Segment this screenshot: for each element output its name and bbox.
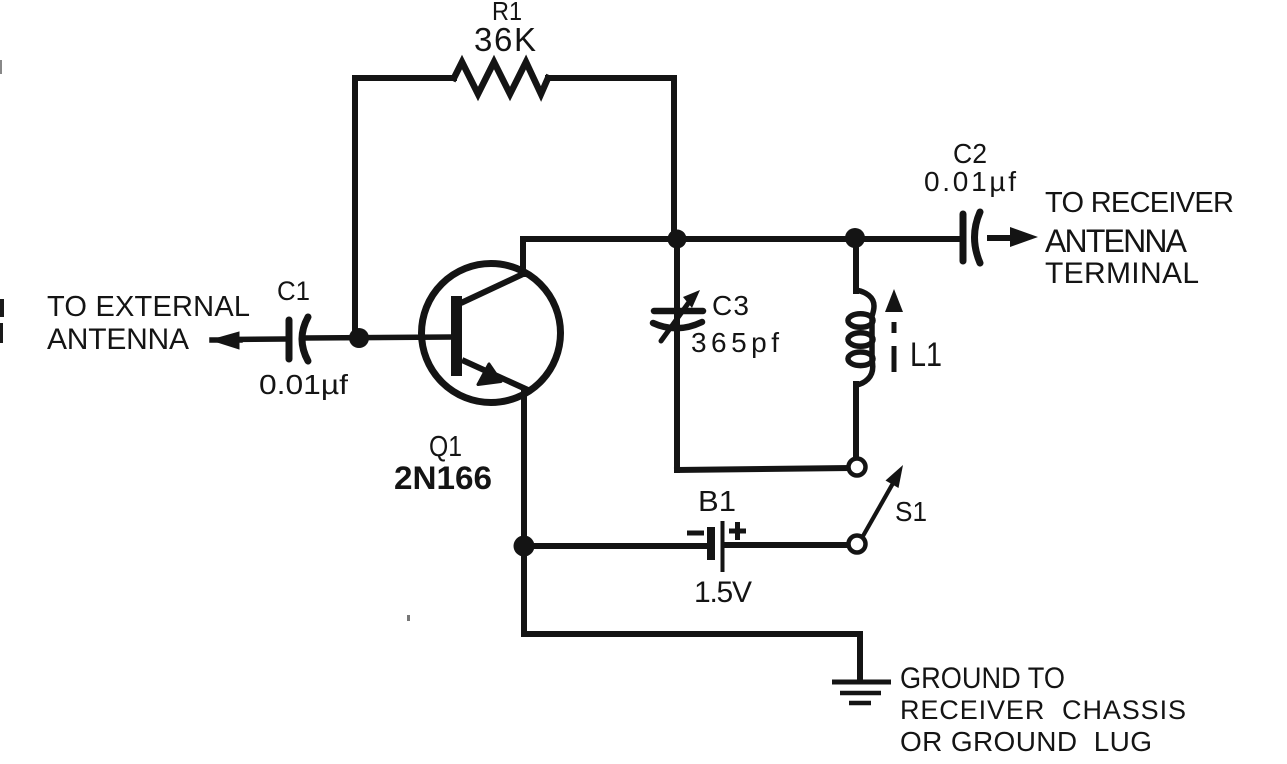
capacitor C3 variable <box>653 298 703 341</box>
wire L1 top lead <box>853 238 859 291</box>
svg-text:OR GROUND LUG: OR GROUND LUG <box>900 726 1152 757</box>
arrowhead external antenna <box>211 332 239 349</box>
svg-text:0.01µf: 0.01µf <box>924 166 1016 197</box>
node junction base/C1 <box>349 328 369 348</box>
capacitor C1 <box>289 317 308 361</box>
wire bottom rail to ground <box>524 634 860 680</box>
arrow to receiver <box>987 235 1014 241</box>
svg-text:TERMINAL: TERMINAL <box>1045 257 1199 290</box>
wire base lead <box>228 337 451 340</box>
svg-text:2N166: 2N166 <box>394 460 492 496</box>
svg-text:1.5V: 1.5V <box>694 576 752 609</box>
svg-text:36K: 36K <box>474 21 536 58</box>
wire battery row left <box>524 543 706 549</box>
wire L1 bottom lead <box>853 384 859 458</box>
svg-text:C1: C1 <box>277 276 310 306</box>
svg-text:RECEIVER CHASSIS: RECEIVER CHASSIS <box>900 695 1186 725</box>
svg-text:365pf: 365pf <box>691 327 779 358</box>
arrow to external antenna <box>212 337 240 343</box>
svg-text:Q1: Q1 <box>429 431 462 463</box>
wire top-left rail <box>355 78 454 338</box>
svg-text:TO EXTERNAL: TO EXTERNAL <box>47 291 250 323</box>
wire collector to C2 <box>523 239 963 274</box>
svg-text:TO RECEIVER: TO RECEIVER <box>1045 187 1234 219</box>
battery minus sign <box>687 531 704 536</box>
svg-text:L1: L1 <box>910 336 942 374</box>
transistor Q1 <box>422 264 561 403</box>
battery B1 <box>711 521 723 572</box>
node junction top rail / C3 <box>668 230 687 249</box>
edge scan marks (decorative) <box>0 299 4 317</box>
svg-text:ANTENNA: ANTENNA <box>47 323 189 356</box>
svg-text:B1: B1 <box>698 486 736 518</box>
switch S1 upper terminal <box>849 459 866 476</box>
wire emitter vertical <box>521 391 527 634</box>
svg-text:GROUND TO: GROUND TO <box>900 662 1065 695</box>
svg-text:C3: C3 <box>712 290 749 321</box>
capacitor C2 <box>963 212 980 263</box>
wire tank bottom <box>677 468 848 470</box>
wire C3 branch vertical <box>674 239 680 470</box>
svg-text:0.01µf: 0.01µf <box>259 369 348 400</box>
switch S1 blade <box>863 478 896 536</box>
svg-text:S1: S1 <box>895 496 927 527</box>
resistor R1 <box>454 62 548 94</box>
wire battery row right <box>726 542 847 548</box>
switch S1 lower terminal <box>849 536 866 553</box>
svg-text:C2: C2 <box>953 138 987 169</box>
battery plus sign <box>729 522 746 540</box>
node junction top rail / L1 <box>845 228 865 248</box>
node junction emitter / battery <box>514 536 535 557</box>
svg-text:ANTENNA: ANTENNA <box>1045 223 1188 259</box>
wire top-right rail <box>548 78 674 239</box>
ground <box>832 682 891 703</box>
inductor L1 <box>848 290 874 385</box>
current arrow at L1 <box>892 322 897 372</box>
